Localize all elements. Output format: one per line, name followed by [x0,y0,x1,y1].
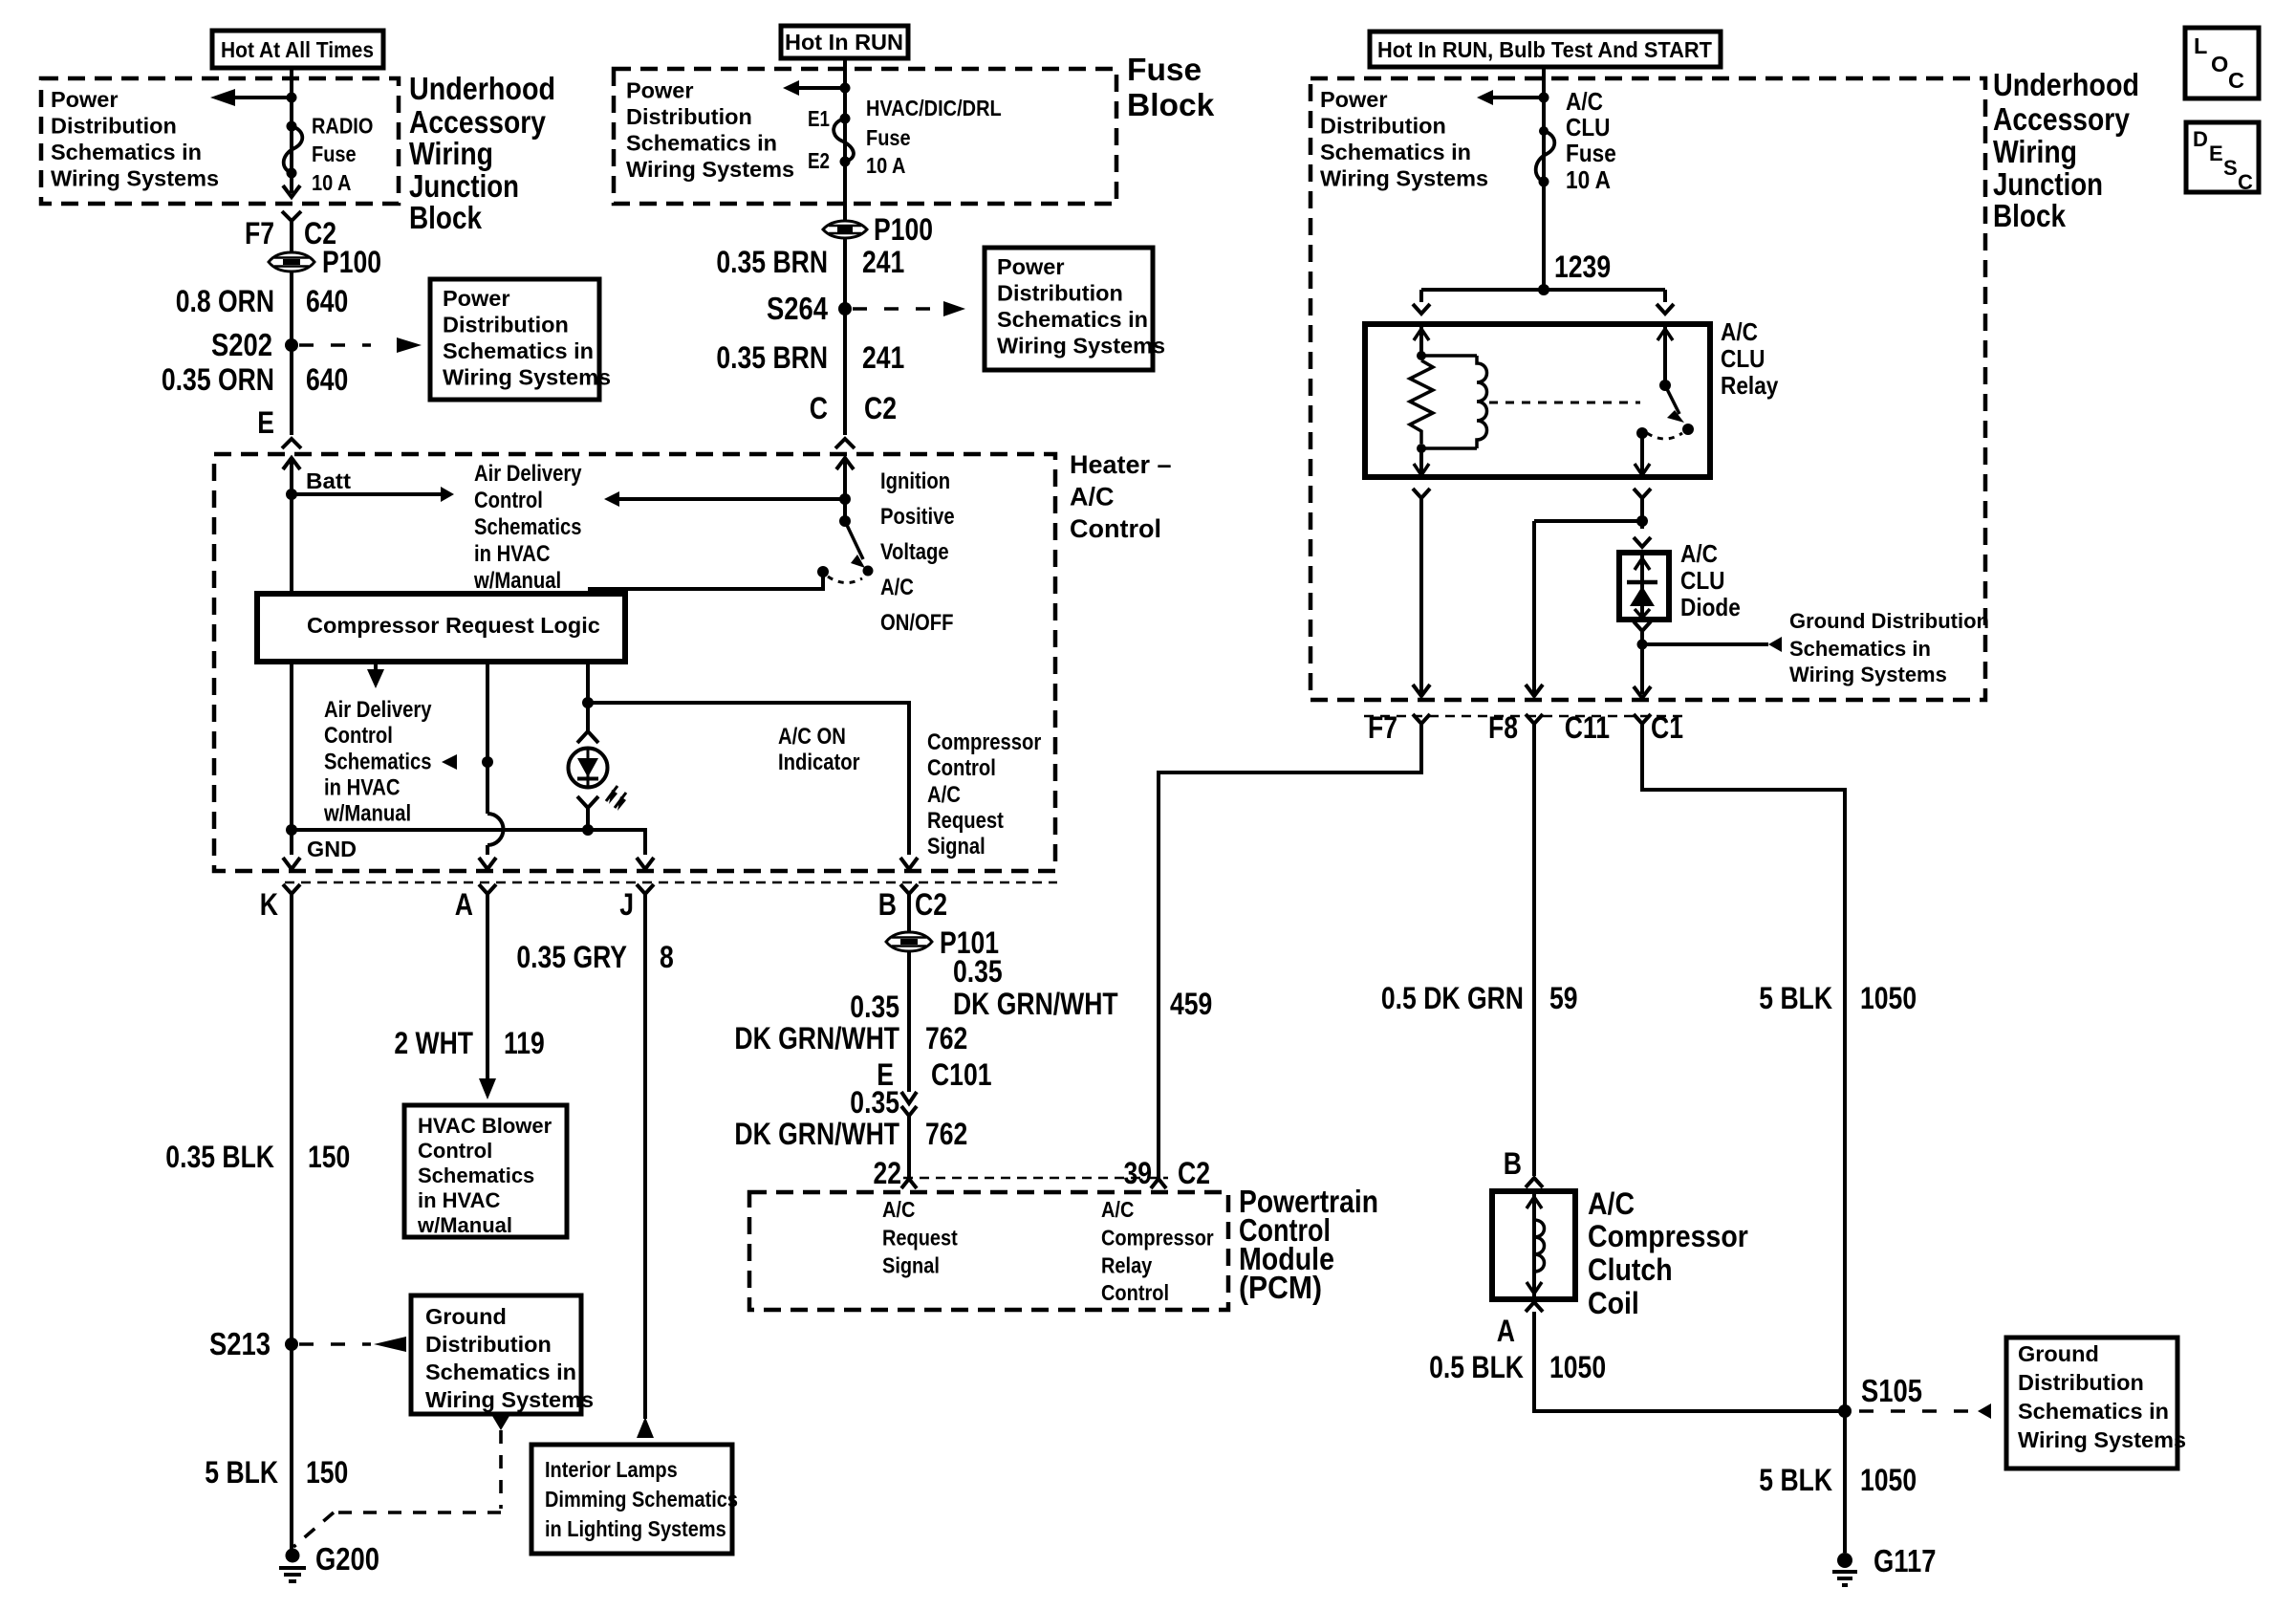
svg-text:F8: F8 [1488,710,1518,745]
svg-text:Compressor: Compressor [1588,1219,1748,1253]
svg-text:G200: G200 [315,1541,379,1577]
svg-text:Control: Control [1101,1280,1169,1305]
svg-text:0.8 ORN: 0.8 ORN [176,284,274,318]
svg-text:O: O [2211,52,2228,76]
svg-text:Compressor Request Logic: Compressor Request Logic [307,613,600,638]
svg-text:Hot At All Times: Hot At All Times [221,37,374,62]
svg-text:A/C: A/C [1588,1186,1635,1221]
svg-text:Power: Power [626,78,694,103]
svg-text:A/C: A/C [1680,539,1718,568]
svg-text:Schematics: Schematics [418,1164,534,1187]
svg-text:1050: 1050 [1860,1463,1917,1497]
svg-text:Compressor: Compressor [1101,1226,1214,1251]
svg-text:Block: Block [1127,88,1215,123]
svg-text:10 A: 10 A [1566,165,1611,194]
svg-text:Schematics in: Schematics in [997,307,1148,332]
svg-text:Underhood: Underhood [1993,68,2139,103]
svg-text:E: E [2209,141,2223,165]
svg-text:Junction: Junction [409,169,519,205]
svg-text:Distribution: Distribution [425,1332,552,1357]
svg-text:0.35: 0.35 [850,990,899,1024]
svg-text:C2: C2 [864,391,897,425]
svg-text:A/C: A/C [927,782,961,808]
svg-text:S202: S202 [211,327,272,362]
svg-text:F7: F7 [245,216,274,250]
svg-text:Request: Request [882,1226,958,1251]
svg-text:Signal: Signal [882,1253,940,1278]
svg-text:22: 22 [874,1156,902,1190]
svg-text:B: B [1504,1146,1522,1181]
svg-text:GND: GND [307,837,357,861]
svg-text:E1: E1 [808,106,830,131]
svg-text:Positive: Positive [880,504,955,530]
svg-text:Ground: Ground [2018,1341,2099,1366]
svg-text:Accessory: Accessory [1993,102,2130,138]
svg-text:Wiring Systems: Wiring Systems [425,1387,594,1412]
svg-text:Accessory: Accessory [409,105,546,141]
svg-text:Distribution: Distribution [997,281,1123,306]
svg-text:Schematics in: Schematics in [626,131,777,156]
svg-text:A/C: A/C [1070,483,1115,511]
svg-text:Schematics: Schematics [324,750,432,775]
svg-text:A/C: A/C [882,1197,915,1222]
svg-text:Hot In RUN: Hot In RUN [785,30,903,54]
svg-text:Voltage: Voltage [880,539,949,565]
svg-text:F7: F7 [1368,710,1397,745]
svg-text:0.35 BRN: 0.35 BRN [716,245,828,279]
svg-text:Junction: Junction [1993,167,2103,203]
svg-text:1239: 1239 [1554,250,1611,284]
svg-text:Wiring Systems: Wiring Systems [1320,166,1488,191]
svg-text:Schematics in: Schematics in [1789,637,1931,661]
svg-text:2 WHT: 2 WHT [394,1026,473,1060]
svg-text:59: 59 [1549,981,1578,1015]
svg-text:Schematics: Schematics [474,514,582,540]
svg-text:P100: P100 [874,212,933,247]
svg-text:1050: 1050 [1860,981,1917,1015]
svg-text:Coil: Coil [1588,1286,1639,1320]
svg-text:8: 8 [660,940,674,974]
svg-text:J: J [619,887,634,922]
svg-text:Wiring: Wiring [409,137,493,172]
svg-text:C11: C11 [1565,710,1610,745]
svg-text:0.35 BLK: 0.35 BLK [165,1140,274,1174]
svg-text:Wiring Systems: Wiring Systems [626,157,794,182]
svg-text:DK GRN/WHT: DK GRN/WHT [734,1117,899,1151]
svg-text:0.5 DK GRN: 0.5 DK GRN [1381,981,1524,1015]
svg-text:Wiring Systems: Wiring Systems [2018,1427,2186,1452]
svg-text:119: 119 [504,1026,545,1060]
svg-text:Clutch: Clutch [1588,1252,1673,1287]
svg-text:Power: Power [997,254,1065,279]
svg-text:Ignition: Ignition [880,468,950,494]
svg-text:Power: Power [1320,87,1388,112]
svg-text:Schematics in: Schematics in [2018,1399,2169,1424]
svg-text:S: S [2223,156,2238,180]
svg-text:Control: Control [474,488,543,513]
svg-text:10 A: 10 A [866,153,906,178]
svg-text:S264: S264 [767,291,829,326]
svg-text:Distribution: Distribution [51,114,177,139]
svg-text:Indicator: Indicator [778,750,860,775]
svg-text:C: C [2238,170,2253,194]
svg-text:241: 241 [862,340,904,375]
svg-text:A/C: A/C [1566,87,1603,116]
svg-text:241: 241 [862,245,904,279]
svg-text:0.35 BRN: 0.35 BRN [716,340,828,375]
svg-text:39: 39 [1124,1156,1153,1190]
svg-text:Relay: Relay [1101,1253,1152,1278]
svg-text:Wiring Systems: Wiring Systems [1789,663,1947,686]
svg-text:w/Manual: w/Manual [417,1213,512,1237]
svg-text:DK GRN/WHT: DK GRN/WHT [953,987,1118,1021]
svg-text:CLU: CLU [1680,566,1725,595]
svg-text:K: K [260,887,278,922]
svg-text:459: 459 [1170,987,1212,1021]
svg-text:Heater –: Heater – [1070,450,1172,479]
svg-text:10 A: 10 A [312,170,352,195]
svg-text:Control: Control [1070,514,1161,543]
svg-text:Block: Block [409,201,482,236]
svg-text:762: 762 [925,1117,967,1151]
svg-text:Ground Distribution: Ground Distribution [1789,609,1989,633]
svg-text:150: 150 [306,1455,348,1490]
svg-text:A: A [455,887,473,922]
svg-text:S105: S105 [1861,1373,1922,1408]
svg-text:Wiring Systems: Wiring Systems [997,334,1165,359]
svg-text:in HVAC: in HVAC [324,775,401,801]
svg-text:in HVAC: in HVAC [418,1188,500,1212]
svg-text:A/C: A/C [880,575,914,600]
svg-text:CLU: CLU [1721,344,1765,373]
svg-text:Batt: Batt [306,468,351,493]
svg-text:Control: Control [418,1139,492,1163]
svg-text:762: 762 [925,1021,967,1055]
svg-text:HVAC Blower: HVAC Blower [418,1114,552,1138]
svg-text:640: 640 [306,284,348,318]
svg-text:Wiring Systems: Wiring Systems [443,365,611,390]
svg-text:P100: P100 [322,245,381,279]
svg-text:w/Manual: w/Manual [473,568,561,594]
svg-text:ON/OFF: ON/OFF [880,610,954,636]
svg-text:C: C [810,391,828,425]
svg-text:Schematics in: Schematics in [443,338,594,363]
svg-text:0.35: 0.35 [850,1085,899,1120]
svg-text:Distribution: Distribution [2018,1370,2144,1395]
svg-text:640: 640 [306,362,348,397]
svg-text:(PCM): (PCM) [1239,1271,1322,1306]
svg-text:1050: 1050 [1549,1350,1606,1384]
svg-text:Control: Control [324,723,393,749]
svg-text:Fuse: Fuse [312,141,357,166]
svg-text:Distribution: Distribution [1320,114,1446,139]
svg-text:E: E [257,405,274,440]
svg-text:0.35 ORN: 0.35 ORN [162,362,274,397]
svg-text:Fuse: Fuse [1566,139,1616,167]
svg-text:Distribution: Distribution [626,104,752,129]
svg-text:HVAC/DIC/DRL: HVAC/DIC/DRL [866,96,1002,120]
svg-text:E2: E2 [808,148,830,173]
svg-text:Power: Power [443,286,510,311]
svg-text:Interior Lamps: Interior Lamps [545,1457,678,1482]
svg-text:Power: Power [51,87,119,112]
svg-text:5 BLK: 5 BLK [205,1455,278,1490]
svg-text:DK GRN/WHT: DK GRN/WHT [734,1021,899,1055]
svg-text:in HVAC: in HVAC [474,541,551,567]
svg-text:0.5 BLK: 0.5 BLK [1429,1350,1524,1384]
svg-text:Diode: Diode [1680,593,1741,621]
svg-text:Compressor: Compressor [927,729,1042,755]
svg-text:Ground: Ground [425,1304,507,1329]
svg-text:w/Manual: w/Manual [323,801,411,827]
svg-text:Schematics in: Schematics in [1320,140,1471,164]
svg-text:C1: C1 [1651,710,1683,745]
svg-text:C101: C101 [931,1057,992,1092]
svg-text:Underhood: Underhood [409,72,555,107]
svg-text:Request: Request [927,808,1004,834]
svg-text:A/C ON: A/C ON [778,724,846,750]
svg-text:Air Delivery: Air Delivery [474,461,582,487]
svg-text:A/C: A/C [1101,1197,1134,1222]
svg-text:0.35 GRY: 0.35 GRY [516,940,627,974]
svg-text:RADIO: RADIO [312,114,373,139]
svg-text:Dimming Schematics: Dimming Schematics [545,1487,738,1512]
svg-text:in Lighting Systems: in Lighting Systems [545,1516,726,1541]
svg-text:Fuse: Fuse [866,125,911,150]
svg-text:S213: S213 [209,1326,271,1361]
svg-text:G117: G117 [1874,1543,1937,1578]
svg-text:Block: Block [1993,199,2066,234]
svg-text:C: C [2228,68,2244,93]
svg-text:A/C: A/C [1721,317,1758,346]
svg-text:C2: C2 [1178,1156,1210,1190]
svg-text:Fuse: Fuse [1127,53,1202,88]
svg-text:C2: C2 [915,887,947,922]
svg-text:Control: Control [927,755,996,781]
svg-text:Relay: Relay [1721,371,1779,400]
svg-text:CLU: CLU [1566,113,1611,141]
svg-text:5 BLK: 5 BLK [1759,1463,1832,1497]
svg-text:Wiring Systems: Wiring Systems [51,166,219,191]
svg-text:L: L [2194,33,2207,58]
svg-text:Air Delivery: Air Delivery [324,697,432,723]
svg-text:Wiring: Wiring [1993,135,2077,170]
svg-text:5 BLK: 5 BLK [1759,981,1832,1015]
svg-text:Schematics in: Schematics in [51,140,202,164]
svg-text:B: B [878,887,897,922]
svg-text:A: A [1497,1314,1515,1348]
svg-text:Hot In RUN, Bulb Test And STAR: Hot In RUN, Bulb Test And START [1377,37,1713,62]
svg-text:150: 150 [308,1140,350,1174]
svg-text:0.35: 0.35 [953,954,1003,989]
svg-text:Signal: Signal [927,834,986,859]
svg-text:Schematics in: Schematics in [425,1360,576,1384]
svg-text:D: D [2193,127,2208,151]
svg-text:Distribution: Distribution [443,313,569,337]
